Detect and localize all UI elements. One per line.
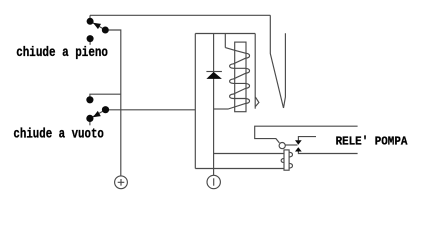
svg-text:chiude a vuoto: chiude a vuoto: [13, 127, 104, 143]
svg-text:RELE' POMPA: RELE' POMPA: [336, 135, 408, 149]
svg-text:chiude a pieno: chiude a pieno: [16, 45, 108, 61]
